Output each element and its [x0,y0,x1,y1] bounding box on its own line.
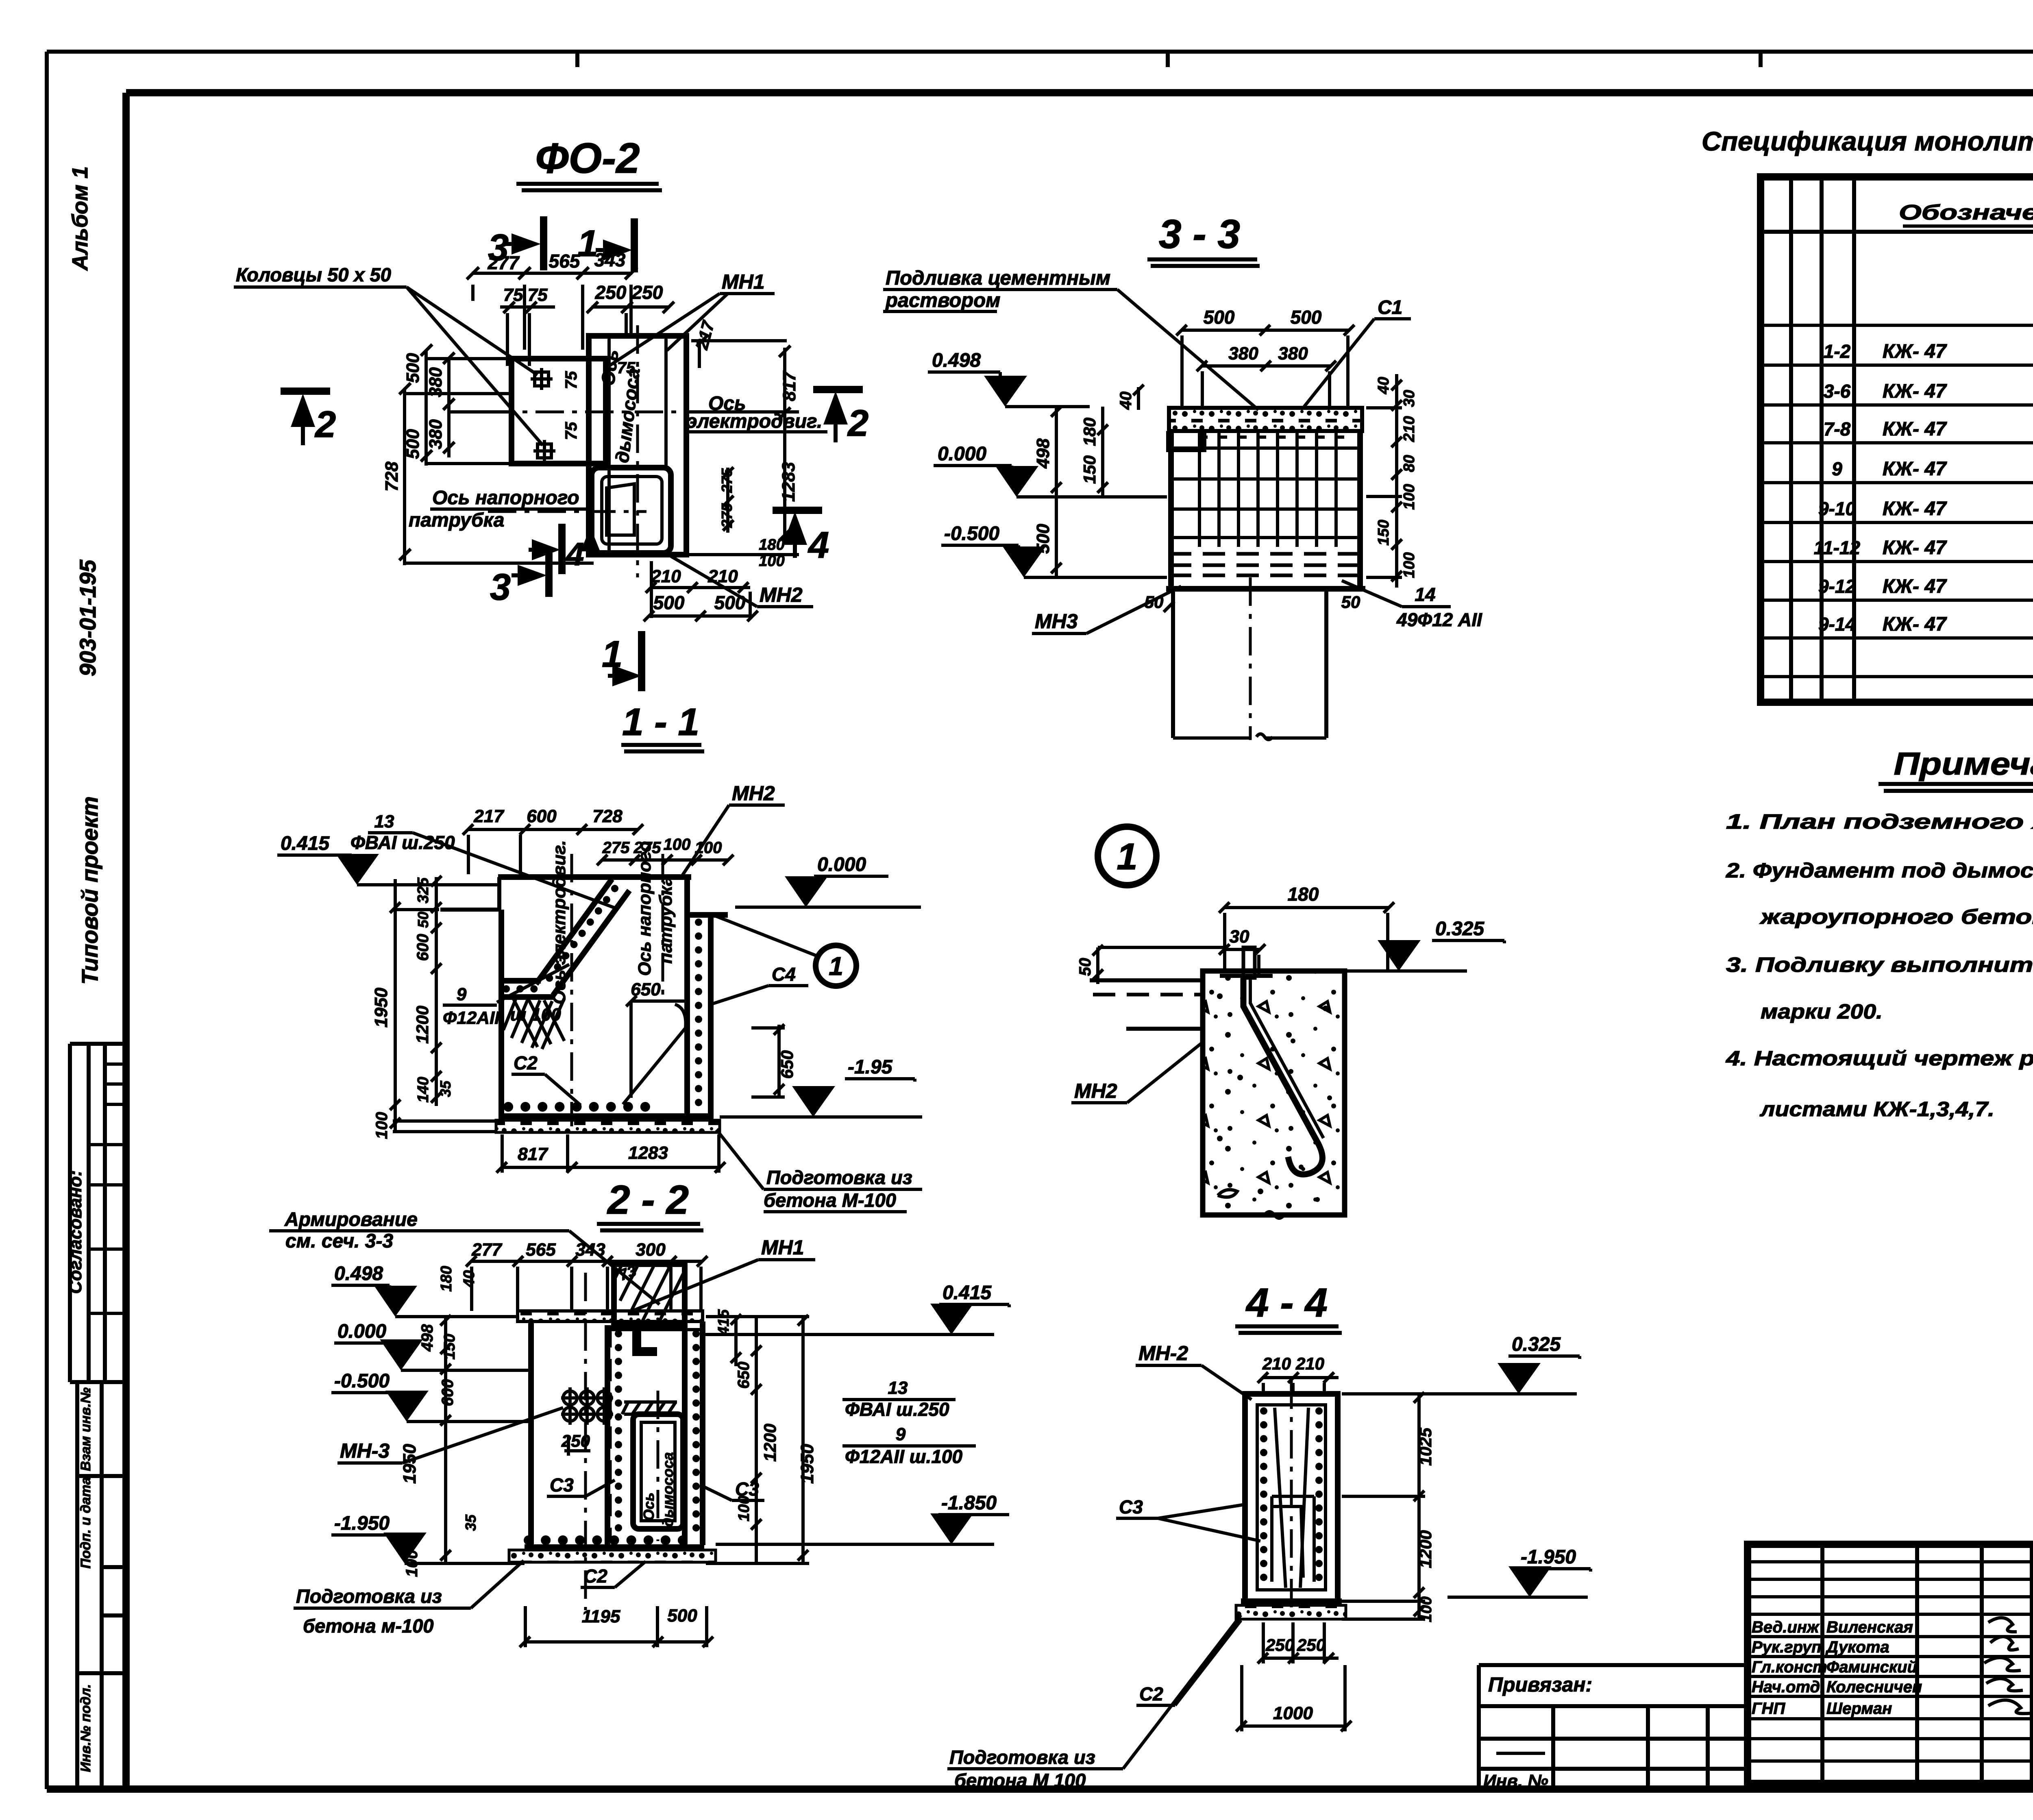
svg-text:С3: С3 [1119,1496,1143,1517]
svg-text:1025: 1025 [1416,1428,1435,1466]
svg-text:11-12: 11-12 [1814,537,1861,558]
pedestal inner L mark [637,1329,657,1352]
svg-text:14: 14 [1415,584,1435,605]
svg-text:Ось: Ось [597,348,622,387]
svg-text:0.415: 0.415 [281,833,330,854]
hatched band above pit [622,1402,677,1414]
svg-text:3. Подливку выполнить из ц: 3. Подливку выполнить из цементного раст… [1726,953,2033,976]
vertical dims 150 180 [1097,407,1108,497]
svg-text:Вед.инж: Вед.инж [1752,1618,1820,1636]
svg-text:Согласовано:: Согласовано: [65,1170,85,1294]
podgotovka strip 2-2 [509,1550,716,1562]
left dim chain inner [431,876,442,1106]
svg-text:1: 1 [1117,836,1137,877]
svg-text:Подготовка из: Подготовка из [296,1585,442,1607]
svg-text:бетона м-100: бетона м-100 [303,1615,434,1637]
svg-text:Ось: Ось [640,1493,657,1521]
svg-text:ФО-2: ФО-2 [535,135,640,182]
svg-text:415: 415 [715,1309,732,1335]
bottom dims 250 250 [1258,1622,1339,1663]
svg-text:-1.850: -1.850 [941,1492,997,1514]
svg-text:С2: С2 [1139,1683,1163,1705]
left dim chains of plan [399,344,594,565]
svg-text:275: 275 [718,503,735,528]
svg-text:Гл.конст: Гл.конст [1752,1658,1827,1676]
svg-text:Ось напорного: Ось напорного [432,487,579,509]
svg-text:1200: 1200 [1416,1530,1435,1568]
svg-text:С2: С2 [514,1052,538,1073]
svg-text:817: 817 [518,1144,549,1164]
svg-text:Типовой проект: Типовой проект [77,796,102,984]
svg-text:С1: С1 [1378,297,1402,318]
dashed axis center 2-2 [584,1273,587,1610]
kolovtsy leader lines [407,287,543,445]
svg-text:498: 498 [1033,438,1053,469]
svg-text:С2: С2 [583,1565,607,1587]
wall dots chains [618,1334,696,1541]
svg-text:100: 100 [1401,552,1418,578]
horizontal dots chain [506,985,541,993]
svg-text:600: 600 [414,934,432,961]
svg-text:277: 277 [488,252,520,273]
svg-text:3: 3 [490,566,511,608]
svg-text:МН1: МН1 [722,270,765,293]
svg-text:КЖ- 47: КЖ- 47 [1883,498,1947,520]
top dim 275 275 100 100 [597,855,734,865]
svg-text:МН2: МН2 [1074,1080,1117,1102]
top slab speckled strip [518,1311,703,1321]
view arrow 2 left [281,388,330,395]
svg-text:КЖ- 47: КЖ- 47 [1883,418,1947,440]
svg-text:Подливка цементным: Подливка цементным [886,267,1110,289]
svg-text:100: 100 [373,1112,391,1139]
title block main divider lines [2032,1607,2033,1731]
pit below dashed verticals [1173,589,1326,738]
inner shaft taper [1275,1408,1308,1588]
svg-text:1-2: 1-2 [1824,341,1851,362]
svg-text:МН2: МН2 [732,782,775,805]
svg-text:-1.950: -1.950 [1521,1546,1576,1568]
svg-text:650: 650 [631,980,661,999]
svg-text:30: 30 [1230,927,1249,947]
svg-text:Подготовка из: Подготовка из [766,1167,912,1188]
svg-text:Подготовка из: Подготовка из [949,1746,1095,1768]
svg-text:1 - 1: 1 - 1 [622,701,699,744]
svg-text:жароупорного бетона марки-1: жароупорного бетона марки-150. [1759,905,2033,928]
svg-text:40: 40 [1375,377,1392,394]
privyazan box [1479,1665,1748,1789]
svg-text:150: 150 [1080,455,1099,484]
plan: inner wall line of tall rect [609,336,666,555]
svg-text:МН-2: МН-2 [1138,1342,1188,1365]
hatch strokes under band [503,998,564,1049]
svg-text:500: 500 [1204,307,1235,328]
inner chamfer diagonal [623,1004,686,1104]
top dims 277 565 343 300 [466,1256,707,1311]
right dims 1025 1200 100 [1342,1392,1425,1619]
svg-text:1000: 1000 [1273,1703,1313,1723]
svg-text:С4: С4 [772,964,796,985]
svg-text:75: 75 [562,422,580,440]
svg-text:0.415: 0.415 [942,1282,992,1304]
plan: right tall rectangle [589,336,686,555]
svg-text:0.325: 0.325 [1435,918,1484,940]
inner dots chains [1264,1411,1319,1586]
svg-text:1200: 1200 [760,1424,779,1461]
svg-text:Спецификация монолитной желе: Спецификация монолитной железобетонной к… [1702,126,2033,156]
dash in cell [1496,1752,1545,1755]
specification table outer box [1761,177,2033,702]
svg-text:Колесничен: Колесничен [1826,1678,1922,1696]
svg-text:30: 30 [1401,390,1418,407]
specification table column lines [1791,177,2033,702]
soffit line [607,1328,703,1331]
svg-text:Коловцы 50 х 50: Коловцы 50 х 50 [236,264,391,285]
svg-text:МН-3: МН-3 [340,1439,390,1462]
svg-text:150: 150 [1375,520,1392,545]
svg-text:Обозначение: Обозначение [1899,201,2033,224]
svg-text:210: 210 [651,566,681,586]
svg-text:325: 325 [415,877,432,903]
svg-text:13: 13 [374,812,394,832]
axis napornogo vertical [662,854,664,1000]
right wall inner [684,877,690,1121]
top dim 380 380 [1197,361,1336,407]
svg-text:ГНП: ГНП [1752,1700,1785,1718]
svg-text:Армирование: Армирование [284,1209,418,1230]
svg-text:4: 4 [565,536,584,572]
svg-text:600: 600 [527,806,557,826]
axis dymososa in pit [657,1391,660,1541]
plan: pit rounded rect [592,468,671,553]
svg-text:Инв.№ подл.: Инв.№ подл. [78,1684,94,1772]
diagonal hatched band [536,879,629,995]
svg-text:75: 75 [503,285,523,305]
svg-text:0.325: 0.325 [1512,1334,1561,1355]
svg-text:275: 275 [718,468,735,493]
right dims 275 275 180 100 [723,467,734,533]
section mark 4 bottom left [558,524,566,574]
bottom slab dots [529,1535,697,1545]
approval box row lines [89,1064,126,1313]
svg-text:35: 35 [462,1514,479,1531]
anchor bolt 1 [535,372,549,386]
svg-text:1950: 1950 [400,1444,420,1484]
svg-text:-1.950: -1.950 [334,1513,390,1534]
svg-text:0.498: 0.498 [334,1263,383,1284]
anchor cluster [561,1387,613,1425]
bottom slab 4-4 [1241,1598,1342,1604]
svg-text:Дукота: Дукота [1825,1638,1889,1656]
svg-text:9: 9 [457,984,467,1004]
inner mesh rect [1272,1496,1314,1582]
svg-text:листами КЖ-1,3,4,7.: листами КЖ-1,3,4,7. [1759,1097,1994,1121]
svg-text:380: 380 [426,419,446,449]
svg-text:КЖ- 47: КЖ- 47 [1883,537,1947,559]
specification table row lines [1761,325,2033,677]
svg-text:Инв. №: Инв. № [1483,1771,1548,1791]
svg-text:патрубка: патрубка [409,509,504,531]
body side walls [1171,431,1360,589]
svg-text:140: 140 [415,1077,432,1102]
svg-text:КЖ- 47: КЖ- 47 [1883,614,1947,635]
svg-text:1: 1 [829,951,843,981]
svg-text:275: 275 [602,839,630,857]
svg-text:Ось электродвиг.: Ось электродвиг. [549,840,569,1004]
extra stipple dots in block [1217,993,1332,1202]
svg-text:210: 210 [1401,416,1418,442]
svg-text:-0.500: -0.500 [334,1370,390,1392]
left margin bottom boxes [77,1382,126,1789]
vertical dim 40 [1133,385,1144,410]
plan: pit inner rect [602,477,662,544]
svg-text:дымососа: дымососа [660,1452,676,1527]
svg-text:3-6: 3-6 [1824,381,1851,402]
body top strip left step [1169,431,1204,449]
svg-text:150: 150 [441,1334,458,1359]
svg-text:МН2: МН2 [760,583,803,606]
svg-text:см. сеч. 3-3: см. сеч. 3-3 [285,1230,393,1252]
svg-text:40: 40 [461,1270,478,1288]
svg-text:ФВАI ш.250: ФВАI ш.250 [845,1399,949,1420]
svg-text:277: 277 [471,1240,503,1260]
detail circle 1 [816,945,856,986]
block bottom break [1203,1212,1345,1218]
rebar verticals [1199,431,1336,547]
svg-text:343: 343 [594,249,626,270]
plan axes dash-dot [486,325,699,577]
center axis of pit [1249,577,1252,740]
svg-text:100: 100 [1401,484,1418,509]
svg-text:1200: 1200 [413,1006,432,1043]
title block left grid verticals [1822,1544,2032,1783]
svg-text:Альбом 1: Альбом 1 [68,166,92,271]
svg-text:500: 500 [403,429,423,459]
pit rounded rect [633,1414,683,1529]
diagonal dots chain [542,888,615,989]
pedestal hatch [614,1264,685,1321]
svg-text:9: 9 [1832,458,1842,479]
svg-text:728: 728 [382,462,402,492]
specification table header row line [1761,230,2033,234]
left margin approval box [70,1044,126,1382]
svg-text:180: 180 [759,536,784,553]
podlivka leader [1117,290,1258,410]
bottom dim 1195 500 [520,1606,713,1647]
signatures scribbles [1984,1618,2033,1714]
body top-left step [440,877,499,910]
svg-text:500: 500 [714,592,746,613]
svg-text:2 - 2: 2 - 2 [607,1177,689,1223]
svg-text:343: 343 [575,1240,605,1260]
left dim chain outer [390,879,500,1132]
vertical dim 498 [1051,406,1062,497]
svg-text:С3: С3 [550,1474,574,1496]
pit inner rect [641,1422,675,1521]
svg-text:210: 210 [1295,1354,1324,1373]
svg-text:0.000: 0.000 [337,1321,386,1342]
svg-text:КЖ- 47: КЖ- 47 [1883,576,1947,597]
anchor plate and bolt [1243,947,1255,978]
body 4-4 inner [1257,1405,1326,1590]
svg-text:бетона М 100: бетона М 100 [954,1770,1086,1791]
vertical dim 500 lower [1051,497,1062,577]
svg-text:498: 498 [418,1324,436,1352]
svg-text:9-10: 9-10 [1818,498,1856,519]
bottom slab dots [508,1102,659,1112]
dim 210 210 top [1258,1372,1339,1393]
svg-text:35: 35 [437,1080,454,1097]
svg-text:1950: 1950 [797,1444,817,1484]
svg-text:100: 100 [759,553,784,570]
svg-text:Нач.отд.: Нач.отд. [1752,1678,1824,1696]
rebar horizontals [1172,448,1359,538]
svg-text:Ф12АII ш.100: Ф12АII ш.100 [845,1446,962,1467]
svg-text:1195: 1195 [582,1607,620,1626]
bottom dim 817 1283 [496,1134,725,1173]
svg-text:903-01-195: 903-01-195 [75,559,100,676]
body top strip speckled [1169,408,1362,431]
svg-text:-1.95: -1.95 [848,1056,893,1078]
svg-text:МН1: МН1 [761,1236,804,1259]
right wall outer and top step [687,915,728,1121]
svg-text:электродвиг.: электродвиг. [686,411,822,432]
svg-text:Взам инв.№: Взам инв.№ [78,1387,94,1471]
svg-text:Фаминский: Фаминский [1826,1658,1917,1676]
svg-text:40: 40 [1117,392,1135,410]
inner dim 650 [626,996,688,1098]
body top edge [498,874,691,880]
svg-text:патрубка: патрубка [656,876,676,964]
detail circle heading [1098,827,1156,885]
svg-text:1950: 1950 [371,988,391,1028]
anchor bolt 2 [538,444,551,458]
svg-text:250: 250 [631,282,663,303]
fold tick marks on top border [577,52,1761,67]
svg-text:250: 250 [595,282,627,303]
svg-text:380: 380 [1228,344,1258,364]
svg-text:9-12: 9-12 [1818,576,1856,597]
ellipse pebble bottom left [1218,1190,1237,1197]
svg-text:Подп. и дата: Подп. и дата [78,1477,94,1568]
right wall dots chain [695,922,702,1114]
svg-text:0.498: 0.498 [932,350,981,371]
svg-text:4. Настоящий чертеж рассматр: 4. Настоящий чертеж рассматривать совмес… [1726,1047,2033,1070]
svg-text:раствором: раствором [885,290,1000,311]
svg-text:250: 250 [1297,1635,1326,1655]
right dim chain 217 817 1283 [686,335,799,555]
svg-text:Виленская: Виленская [1826,1618,1913,1636]
svg-text:100: 100 [403,1550,421,1577]
left dim chains [440,1315,451,1563]
svg-text:0.000: 0.000 [817,854,866,875]
bottom slab line [1166,586,1365,592]
svg-text:50: 50 [415,912,431,928]
horizontal dotted band [501,981,554,997]
bottom dim 210 210 [646,561,750,618]
svg-text:600: 600 [439,1379,457,1406]
svg-text:500: 500 [403,353,423,383]
svg-text:210: 210 [1262,1354,1291,1373]
svg-text:210: 210 [707,566,738,586]
svg-text:100: 100 [1418,1596,1435,1622]
right dim 650 [751,1024,785,1098]
svg-text:Привязан:: Привязан: [1488,1673,1592,1696]
svg-text:Рук.груп: Рук.груп [1752,1638,1822,1656]
svg-text:80: 80 [1401,455,1418,472]
svg-text:250: 250 [1265,1635,1294,1655]
svg-text:бетона М-100: бетона М-100 [764,1189,896,1211]
svg-text:817: 817 [779,370,799,401]
svg-text:КЖ- 47: КЖ- 47 [1883,341,1947,362]
svg-text:180: 180 [438,1266,455,1291]
axis center 4-4 [1290,1380,1293,1610]
svg-text:75: 75 [528,285,548,305]
svg-text:180: 180 [1080,418,1099,446]
svg-text:0.000: 0.000 [938,443,986,465]
dim chain 75 75 / 250 250 [500,302,674,366]
svg-text:КЖ- 47: КЖ- 47 [1883,458,1947,480]
top dim 217 600 728 [463,824,643,874]
leader from label to slab [413,833,614,908]
svg-text:2: 2 [847,403,868,444]
svg-text:650: 650 [777,1050,797,1079]
svg-text:500: 500 [667,1606,697,1626]
svg-text:1283: 1283 [628,1143,668,1163]
anchor hook [1243,978,1322,1174]
svg-text:500: 500 [1033,524,1053,554]
svg-text:380: 380 [1278,344,1308,364]
svg-text:2. Фундамент под дымосос в: 2. Фундамент под дымосос выполнить из [1726,859,2033,882]
svg-text:2: 2 [314,404,336,445]
svg-text:Ф12АII: Ф12АII [443,1008,500,1028]
svg-text:300: 300 [636,1240,666,1260]
svg-text:4: 4 [808,525,829,566]
svg-text:50: 50 [1341,592,1360,612]
title block outer box [1748,1544,2033,1783]
concrete block [1203,971,1345,1215]
dim 180 [1219,902,1394,969]
dim chain 277 565 343 [467,267,637,350]
svg-text:50: 50 [1076,958,1094,976]
axis electrodvig vertical [570,854,573,1126]
svg-text:Примечания: Примечания [1894,746,2033,782]
svg-text:75: 75 [562,371,580,389]
svg-text:565: 565 [549,250,581,272]
svg-text:565: 565 [526,1240,556,1260]
svg-text:МН3: МН3 [1035,610,1078,633]
svg-text:500: 500 [653,592,685,613]
svg-text:Шерман: Шерман [1826,1700,1892,1718]
svg-text:9-14: 9-14 [1818,614,1856,635]
svg-text:100: 100 [695,839,722,857]
svg-text:728: 728 [592,806,623,826]
dim 30 [1219,944,1265,974]
dashed inner line [608,1325,612,1543]
top right pedestal [614,1264,685,1325]
bottom dashed strips [1169,554,1362,575]
svg-text:-0.500: -0.500 [944,523,999,544]
body walls [531,1321,703,1545]
svg-text:1283: 1283 [779,462,799,502]
svg-text:650: 650 [735,1362,753,1389]
bottom dim 500 500 [644,611,758,621]
svg-text:13: 13 [888,1378,908,1398]
sheet bottom border line [47,1785,2033,1793]
right dim chains [706,1314,809,1563]
view arrow 4 right [773,507,822,514]
svg-text:217: 217 [473,806,505,826]
